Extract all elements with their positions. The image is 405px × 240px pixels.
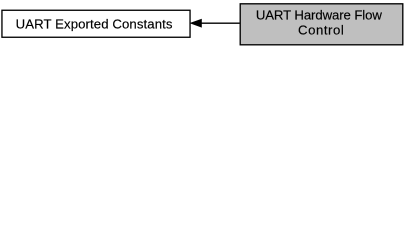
svg-text:UART Exported Constants: UART Exported Constants [16, 16, 173, 31]
svg-text:UART Hardware Flow: UART Hardware Flow [256, 8, 383, 23]
svg-text:Control: Control [298, 22, 344, 37]
